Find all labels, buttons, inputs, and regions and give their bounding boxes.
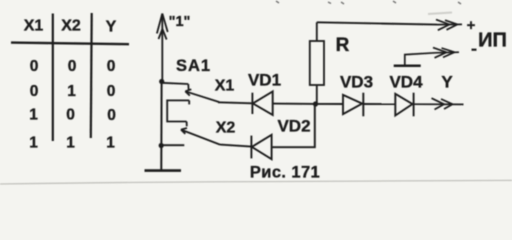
- truth table row 4: 1 1 1: [29, 135, 115, 152]
- truth table row 3: 1 0 0: [29, 107, 116, 125]
- ground (supply minus): [394, 65, 421, 68]
- svg-text:0: 0: [107, 107, 116, 124]
- truth table horizontal rule: [11, 43, 129, 45]
- switch SA1 pole 1 fixed contact: [162, 83, 189, 90]
- svg-text:VD4: VD4: [389, 73, 423, 92]
- wire X2 to VD2: [220, 145, 251, 147]
- top edge specks (decorative): [276, 1, 461, 4]
- caption Рис. 171: [250, 164, 320, 182]
- diode VD3: [343, 93, 363, 117]
- node: logic "1" source arrow: [157, 14, 168, 82]
- wire VD1 to node B: [273, 103, 316, 105]
- label -: [472, 49, 477, 51]
- truth table header X2: [61, 18, 81, 35]
- truth table header Y: [106, 19, 117, 36]
- node junction dot lower: [159, 143, 164, 148]
- svg-text:1: 1: [29, 135, 38, 152]
- svg-text:Y: Y: [106, 19, 117, 36]
- svg-text:X2: X2: [61, 18, 81, 35]
- svg-text:1: 1: [67, 83, 76, 100]
- svg-text:VD1: VD1: [248, 71, 281, 90]
- page shadow line (decorative): [0, 180, 512, 184]
- terminal arrow +: [436, 20, 462, 31]
- svg-text:0: 0: [66, 107, 75, 124]
- svg-text:SA1: SA1: [176, 57, 211, 75]
- wire -ИП to ground: [405, 48, 459, 66]
- ground: [145, 169, 182, 172]
- svg-text:ИП: ИП: [478, 30, 507, 52]
- svg-text:0: 0: [107, 58, 116, 75]
- svg-text:0: 0: [30, 58, 39, 75]
- svg-text:X1: X1: [215, 78, 235, 95]
- wire VD2 to node B: [272, 104, 315, 147]
- svg-text:R: R: [336, 35, 350, 56]
- switch SA1 pole 2 lower fixed contact stub: [161, 144, 184, 146]
- wire VD4 to output Y arrow: [414, 98, 464, 109]
- label VD2: [277, 117, 310, 136]
- label VD1: [248, 71, 281, 90]
- switch SA1 pole 2 moving arm: [181, 128, 220, 145]
- svg-text:1: 1: [66, 135, 75, 152]
- truth table vertical rule 2: [90, 13, 93, 138]
- label X1: [215, 78, 235, 95]
- truth table row 1: 0 0 0: [30, 58, 116, 75]
- label VD4: [389, 73, 423, 92]
- label "1": [169, 14, 191, 30]
- label +: [467, 17, 476, 34]
- svg-text:+: +: [467, 17, 476, 34]
- svg-text:X2: X2: [216, 120, 236, 137]
- wire node B to VD3: [316, 103, 344, 105]
- label R: [336, 35, 350, 56]
- node junction dot upper: [159, 79, 164, 84]
- svg-text:1: 1: [29, 107, 38, 124]
- node B junction dot: [313, 101, 318, 106]
- truth table header X1: [24, 18, 44, 35]
- svg-text:1: 1: [106, 135, 115, 152]
- svg-text:0: 0: [30, 83, 39, 100]
- truth table row 2: 0 1 0: [30, 83, 116, 100]
- wire top rail to +ИП: [317, 22, 437, 24]
- label VD3: [340, 73, 373, 92]
- diode VD4: [395, 93, 413, 117]
- truth table vertical rule 1: [52, 14, 54, 142]
- switch SA1 pole 1 moving arm: [185, 89, 219, 102]
- svg-text:0: 0: [68, 58, 77, 75]
- wire: main rail (node A): [160, 81, 162, 171]
- label ИП: [478, 30, 507, 52]
- wire VD3 to VD4: [363, 103, 395, 105]
- svg-text:Y: Y: [441, 73, 453, 92]
- svg-text:VD2: VD2: [277, 117, 310, 136]
- resistor R: [310, 22, 324, 104]
- svg-text:VD3: VD3: [340, 73, 373, 92]
- faint smudge (decorative): [428, 13, 452, 15]
- wire X1 to VD1: [218, 102, 252, 103]
- diode VD1: [252, 91, 272, 115]
- label SA1: [176, 57, 211, 75]
- label X2: [216, 120, 236, 137]
- svg-text:Рис. 171: Рис. 171: [250, 164, 320, 182]
- label Y: [441, 73, 453, 92]
- svg-text:0: 0: [107, 83, 116, 100]
- svg-text:X1: X1: [24, 18, 44, 35]
- diode VD2: [251, 135, 271, 159]
- svg-text:"1": "1": [169, 14, 191, 30]
- wire: bracket between poles: [167, 100, 189, 126]
